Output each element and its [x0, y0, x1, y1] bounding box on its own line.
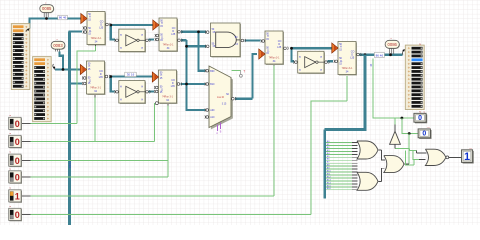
wire AND output to U7 J input: [244, 39, 260, 41]
node junction 0086 leg: [389, 53, 392, 56]
wire label 86 46 on CLK1 wire: [58, 15, 68, 19]
wire logicstate S5 to U7 bottom pin: [31, 66, 275, 197]
svg-text:C0 4 B: C0 4 B: [68, 160, 72, 168]
node junction at U7.Q: [290, 47, 293, 50]
AND gate U10 output bubble: [241, 39, 244, 42]
flip-flop U1 7476: [88, 13, 106, 46]
node junction 0085 leg: [45, 17, 48, 20]
wire logicstate S3 to U4 bottom riser: [31, 159, 169, 161]
AND gate U10 input bubbles: [206, 31, 209, 34]
node junction at U3.Qbar branch: [185, 45, 188, 48]
wire OR2 output riser to probe P2 net: [408, 134, 410, 164]
svg-text:30 16: 30 16: [127, 73, 135, 77]
flip-flop U4 7476: [160, 71, 178, 104]
mux output bubble: [232, 97, 235, 100]
node junction probe P1 branch: [401, 117, 404, 120]
svg-text:L35: L35: [171, 33, 176, 36]
node junction probe P2 branch: [408, 132, 411, 135]
wire U3.Qbar to AND gate input B and mux input A00: [181, 40, 205, 110]
wire CLK1 net: DCLOCK 0085 to U1 clock and DSW1: [28, 19, 30, 29]
svg-text:0: 0: [15, 119, 20, 129]
node junction at U2.Q: [109, 75, 112, 78]
inverter U9: [299, 52, 325, 74]
DIP switch DSW3: [405, 45, 424, 109]
OR gate G3: [384, 156, 404, 173]
svg-text:H: H: [120, 34, 122, 37]
svg-text:H: H: [141, 34, 143, 37]
svg-text:0: 0: [15, 137, 20, 147]
node junction at U8.Q branch: [364, 53, 367, 56]
wire U2.Q to U4 clock: [111, 75, 153, 77]
flip-flop U3 7476: [160, 19, 178, 52]
svg-text:A10: A10: [210, 116, 215, 119]
svg-text:H: H: [320, 56, 322, 59]
svg-text:0083: 0083: [53, 43, 63, 48]
wire mux top terminal T: [232, 69, 241, 71]
logic probe P3: [463, 151, 474, 164]
svg-text:B00: B00: [210, 71, 215, 73]
svg-text:L35: L35: [350, 56, 355, 59]
OR gate G1 8-input: [357, 141, 378, 159]
wire logicstate S2 to U4 lower pin with U2 bottom pin tap: [31, 104, 156, 142]
svg-text:B10: B10: [210, 84, 215, 86]
mux select pins: [218, 123, 221, 132]
svg-text:H: H: [141, 47, 143, 50]
DSW3 pin hook: [403, 49, 405, 55]
wire NOR output to probe P3: [448, 156, 461, 158]
svg-text:0: 0: [15, 173, 20, 183]
inverter U6: [120, 82, 146, 104]
svg-text:H: H: [141, 85, 143, 88]
svg-text:mux t0: mux t0: [217, 96, 225, 99]
clock stimulus 0086: [386, 41, 400, 49]
wire U2 bottom pin down to S2 net: [94, 98, 96, 142]
flip-flop U8 7476: [339, 43, 357, 76]
svg-text:H: H: [299, 69, 301, 72]
wire label 30 16 on U2.Q wire: [125, 72, 136, 76]
wire U4.Q to mux input B10: [181, 83, 206, 85]
wire U3.Q to AND gate input A: [181, 31, 206, 33]
wire U1 bottom pin stub: [95, 45, 97, 47]
wire OR gate G1 output to OR2 input A: [378, 150, 385, 160]
svg-text:0085: 0085: [42, 6, 52, 11]
wire U8.Q to DSW3 and down to OR-bank bus: [360, 54, 403, 56]
wire inverter U6 output to U4.J: [148, 90, 153, 92]
U4 bottom-left pin bubble: [155, 102, 158, 105]
clock stimulus 0083: [52, 42, 66, 50]
node junction U4.Q / A00 riser crossing: [185, 83, 188, 86]
wire branch down to probe P2: [402, 118, 418, 134]
svg-text:A00: A00: [210, 109, 215, 112]
wire logicstate S1 to U1 reset pin: [31, 46, 96, 124]
svg-text:L35: L35: [277, 46, 282, 49]
wire U8.Q tap down to probe P1 net: [373, 59, 414, 119]
wire logicstate S6 to U8 bottom pin: [31, 76, 348, 215]
svg-text:H: H: [120, 85, 122, 88]
wire bus riser from U8.Q down and left to OR-bank: [325, 55, 365, 199]
wire buffer triangle input to NOR input A: [395, 148, 416, 150]
inverter U5: [120, 30, 146, 52]
logic probe P2: [419, 130, 431, 139]
buffer triangle A1: [390, 131, 401, 144]
svg-text:0: 0: [15, 156, 20, 166]
wire branch U2.Q down to inverter U6 input: [111, 77, 115, 92]
svg-text:H: H: [299, 56, 301, 59]
svg-text:1: 1: [15, 192, 20, 202]
svg-text:L35: L35: [99, 26, 104, 29]
DSW1 pin hook: [26, 29, 30, 32]
wire logicstate S4 to U4 bottom riser: [31, 176, 169, 178]
AND gate U10: [212, 24, 242, 58]
flip-flop U7 7476: [266, 32, 284, 65]
wire U1.Q to U3 clock: [111, 24, 154, 26]
wire OR gate G2 output to OR2 input B: [378, 168, 384, 181]
svg-text:86 46: 86 46: [376, 53, 384, 57]
wire branch U1.Q down to inverter U5 input: [111, 25, 115, 40]
svg-text:L35: L35: [171, 85, 176, 88]
DSW2 pin hook: [53, 64, 55, 70]
logicstate S3: [10, 155, 22, 167]
svg-text:3 15: 3 15: [222, 104, 227, 106]
wire label 86 46 on U8.Q wire: [374, 52, 384, 57]
logicstate S1: [10, 118, 22, 130]
svg-text:H: H: [141, 98, 143, 101]
svg-text:H: H: [320, 69, 322, 72]
logicstate S4: [10, 172, 22, 184]
multiplexer U11: [211, 68, 233, 129]
wire branch U3.Q down to mux input B00: [199, 32, 206, 71]
logicstate S6: [10, 209, 22, 221]
NOR gate G4: [425, 149, 446, 165]
node junction 0083 leg: [62, 68, 65, 71]
wire U7.Q to U8 clock: [291, 47, 332, 49]
svg-text:0: 0: [418, 115, 422, 122]
OR gate G2 8-input: [357, 172, 378, 190]
logic probe P1: [415, 114, 427, 123]
wire branch U7.Q down to buffer U9 input: [292, 48, 295, 61]
node junction at U3.Q: [197, 30, 200, 33]
svg-text:0: 0: [15, 210, 20, 220]
node junction at U1.Q: [109, 24, 112, 27]
svg-text:0086: 0086: [388, 42, 398, 47]
svg-text:T: T: [243, 70, 245, 74]
svg-text:H: H: [120, 98, 122, 101]
wire OR-bank input taps from bus: [326, 143, 352, 190]
svg-text:L35: L35: [99, 76, 104, 79]
logicstate S5: [10, 191, 22, 203]
flip-flop U2 7476: [88, 62, 106, 95]
wire CLK2 net: DCLOCK 0083 to U2 clock and DSW2: [55, 52, 82, 70]
svg-text:1: 1: [464, 151, 470, 163]
wire bus vertical feeding U1/U2 preset pins: [68, 32, 71, 226]
mux input bubbles: [206, 69, 209, 72]
wire inverter U5 output to U3.J: [149, 38, 155, 40]
wire buffer U9 output to U8.J: [328, 60, 333, 62]
svg-text:0: 0: [422, 131, 426, 138]
wire U4 bottom pin riser: [167, 106, 169, 178]
logicstate S2: [10, 136, 22, 148]
DIP switch DSW2: [33, 57, 52, 122]
wire buffer triangle output up to P1 net: [394, 118, 396, 125]
svg-text:H: H: [120, 47, 122, 50]
clock stimulus 0085: [41, 5, 55, 13]
wire mux output up to U7 clock: [235, 54, 257, 99]
wire NOR input B staircase: [413, 151, 419, 160]
svg-text:86 46: 86 46: [59, 16, 67, 20]
DIP switch DSW1: [11, 24, 30, 90]
